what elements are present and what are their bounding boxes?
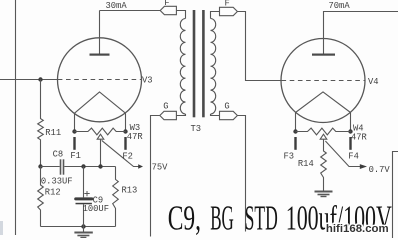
svg-text:30mA: 30mA	[106, 1, 128, 11]
svg-text:F2: F2	[122, 151, 133, 161]
svg-text:R12: R12	[45, 188, 61, 198]
wire cathode rail	[64, 166, 115, 168]
wire G right drop	[237, 116, 245, 232]
svg-text:47R: 47R	[351, 132, 368, 142]
svg-text:R14: R14	[298, 159, 314, 169]
ground V4 stage	[315, 191, 333, 193]
svg-text:47R: 47R	[127, 132, 144, 142]
wire left border vertical	[15, 0, 17, 235]
svg-text:0.7V: 0.7V	[369, 165, 391, 175]
svg-text:R13: R13	[122, 186, 138, 196]
svg-text:R11: R11	[45, 128, 61, 138]
node C9 top	[81, 164, 85, 168]
wire cathode left leg	[74, 113, 76, 131]
node grid junction	[38, 77, 42, 81]
grid dashed line V3	[58, 79, 142, 81]
wire tag to winding	[176, 11, 185, 19]
svg-text:100UF: 100UF	[83, 204, 109, 214]
connector tag G right	[220, 111, 238, 119]
wire W4 wiper to 0.7V arrow	[325, 141, 360, 167]
cathode chevron V4	[296, 92, 351, 113]
transformer core	[193, 10, 196, 117]
node cathode right	[123, 129, 127, 133]
plus sign C9	[86, 191, 88, 196]
svg-text:hifi168.com: hifi168.com	[326, 223, 389, 235]
cathode chevron V3	[75, 92, 126, 113]
svg-text:0.33UF: 0.33UF	[41, 176, 73, 186]
node wiper rail	[98, 164, 102, 168]
wire W3 wiper to 75V arrow	[102, 140, 139, 166]
plate V3	[90, 54, 110, 56]
wire winding bottom to G tag	[176, 114, 185, 116]
wire F right to V4 grid	[237, 12, 281, 81]
connector tag F left	[160, 6, 176, 14]
left edge smudge	[0, 221, 3, 235]
bracket next stage right edge	[393, 152, 398, 239]
svg-text:F4: F4	[348, 151, 359, 161]
connector tag G left	[160, 111, 177, 119]
wiper arrow W4	[320, 134, 327, 139]
resistor R13	[113, 167, 119, 227]
node ground rail	[81, 224, 85, 228]
pin F4	[349, 137, 351, 150]
node R11 bottom	[38, 164, 42, 168]
svg-text:F1: F1	[70, 151, 81, 161]
transformer T3 right winding	[211, 12, 220, 19]
capacitor C9	[83, 167, 85, 198]
transformer T3 left winding	[180, 19, 185, 115]
ground V3 stage	[83, 227, 85, 232]
wire G left drop 75V	[151, 116, 160, 237]
svg-text:F: F	[225, 0, 230, 9]
wire plate V3 up	[99, 11, 101, 54]
svg-text:T3: T3	[191, 124, 202, 134]
potentiometer W4	[296, 128, 351, 135]
svg-text:70mA: 70mA	[329, 1, 351, 11]
wire V3 grid input	[0, 79, 58, 81]
resistor R14	[321, 139, 327, 191]
capacitor C8	[41, 166, 60, 168]
pin F1	[73, 137, 75, 150]
svg-text:STD: STD	[245, 198, 278, 237]
resistor R11	[38, 80, 44, 167]
connector tag F right	[220, 7, 238, 15]
wire W3 wiper down	[100, 139, 102, 166]
svg-text:BG: BG	[210, 198, 234, 237]
grid dashed line V4	[282, 80, 366, 82]
wire ground rail	[41, 226, 116, 228]
svg-text:C9,: C9,	[168, 199, 201, 238]
resistor R12	[38, 167, 44, 227]
svg-text:V4: V4	[368, 77, 379, 87]
plate V4	[312, 54, 335, 56]
svg-text:F3: F3	[284, 151, 295, 161]
tube V3	[58, 38, 142, 122]
wire plate to F tag	[100, 10, 161, 12]
wiper arrow W3	[97, 134, 104, 139]
svg-text:C8: C8	[53, 149, 64, 159]
svg-text:G: G	[224, 102, 229, 112]
wire cathode legs V4	[295, 113, 297, 132]
potentiometer W3	[75, 128, 126, 135]
node cathode left	[72, 129, 76, 133]
tube V4	[281, 39, 365, 123]
pin F2	[124, 137, 126, 150]
svg-text:G: G	[163, 101, 168, 111]
svg-text:V3: V3	[142, 76, 153, 86]
wire cathode right leg	[125, 113, 127, 131]
pin F3	[294, 137, 296, 150]
svg-text:75V: 75V	[152, 163, 169, 173]
svg-text:F: F	[164, 0, 169, 8]
wire plate V4 up	[324, 12, 398, 54]
